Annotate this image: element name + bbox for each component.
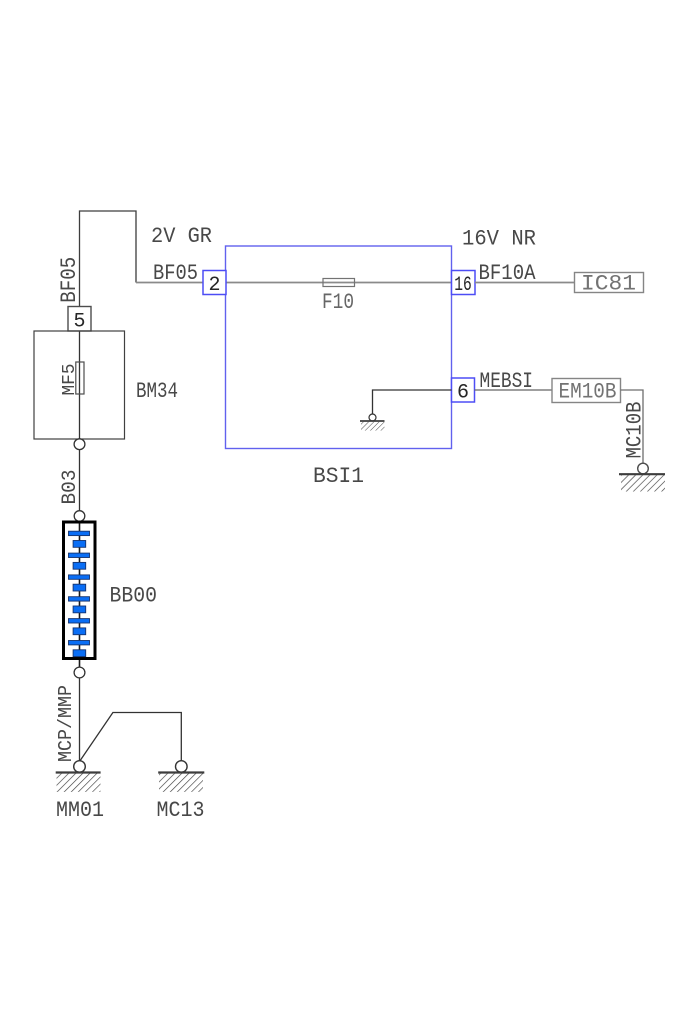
IC81 box [575, 272, 644, 297]
connector circle battery bottom [74, 667, 85, 678]
battery BB00 box [64, 522, 96, 659]
BM34 box [34, 331, 125, 439]
pin box 2 [203, 271, 226, 298]
svg-text:MM01: MM01 [56, 798, 104, 823]
svg-text:MC13: MC13 [157, 798, 205, 823]
EM10B box [552, 379, 621, 405]
svg-text:IC81: IC81 [581, 272, 636, 297]
ground internal BSI1 [360, 414, 385, 431]
svg-text:5: 5 [73, 311, 85, 334]
svg-text:MC10B: MC10B [623, 402, 648, 459]
svg-text:MCP/MMP: MCP/MMP [55, 685, 77, 762]
battery BB00 cells [69, 531, 90, 656]
svg-text:16V NR: 16V NR [462, 227, 536, 252]
box 5 (BM34 pin) [68, 307, 91, 334]
wire BM34 pin 5 through box to battery [79, 307, 81, 517]
svg-text:BM34: BM34 [136, 379, 178, 404]
svg-text:BB00: BB00 [110, 584, 158, 609]
connector circle BM34 bottom [74, 439, 85, 450]
ground MC10B [619, 463, 665, 491]
svg-text:2V GR: 2V GR [151, 224, 212, 249]
BSI1 box [226, 246, 452, 449]
wire pin 2 to pin 16 through fuse F10 [226, 282, 452, 284]
pin box 16 [452, 271, 476, 298]
svg-text:F10: F10 [322, 290, 354, 315]
ground MM01 [56, 761, 101, 792]
fuse F10 [323, 279, 355, 287]
wire into pin 2 [136, 282, 203, 284]
svg-text:BSI1: BSI1 [313, 464, 364, 489]
wire EM10B to ground MC10B [621, 390, 644, 463]
wire pin 16 to IC81 [475, 282, 575, 284]
wire BSI1 internal ground [373, 390, 452, 414]
wire BF05 harness (BM34 pin 5 up, over, down toward BSI1 pin 2) [80, 211, 137, 307]
wire MM01 to MC13 [80, 713, 182, 762]
svg-text:6: 6 [457, 382, 469, 405]
svg-text:B03: B03 [59, 470, 82, 505]
svg-text:2: 2 [208, 274, 220, 297]
svg-text:EM10B: EM10B [559, 380, 617, 405]
pin box 6 [452, 378, 475, 405]
battery BB00 center wire [79, 521, 81, 667]
svg-text:MF5: MF5 [60, 364, 80, 396]
svg-text:BF05: BF05 [153, 261, 198, 286]
wire MCP/MMP to ground MM01 [79, 678, 81, 761]
wire pin 6 to EM10B [475, 389, 553, 391]
fuse MF5 [76, 362, 84, 394]
svg-text:BF05: BF05 [57, 257, 82, 303]
connector circle battery top [74, 511, 85, 522]
svg-text:16: 16 [454, 274, 472, 297]
ground MC13 [158, 761, 204, 792]
